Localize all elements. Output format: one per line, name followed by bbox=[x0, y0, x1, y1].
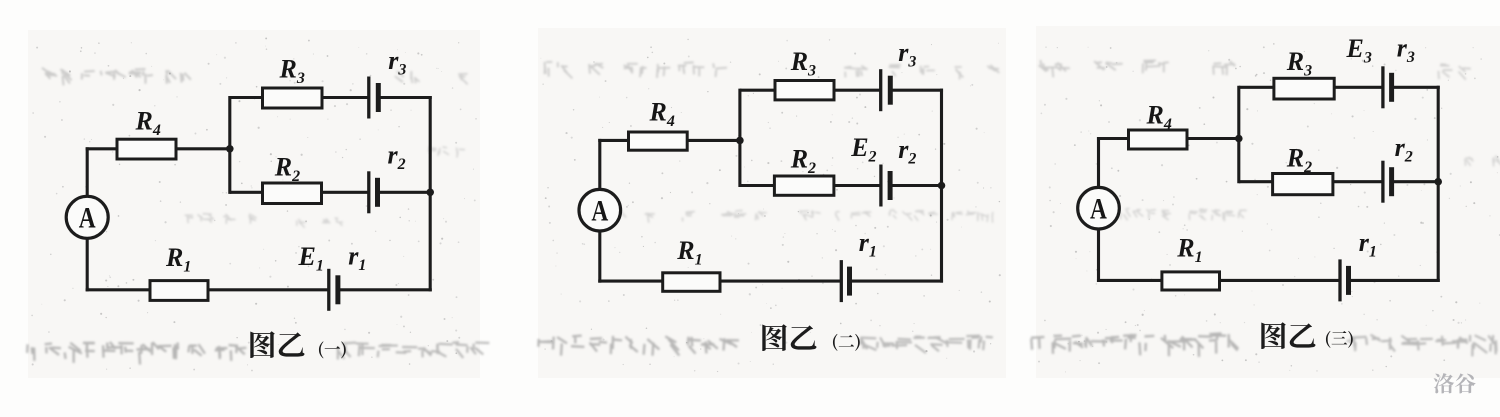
wire ammeter top to R4 left corner bbox=[1097, 137, 1130, 186]
wire R4 to junction node bbox=[175, 147, 231, 150]
wire battery to right rail (bottom) bbox=[1349, 279, 1440, 282]
battery cell r2 middle branch bbox=[369, 171, 378, 213]
junction node right rail (circuit 1) bbox=[426, 189, 434, 197]
resistor R4 (circuit 3) bbox=[1129, 130, 1188, 149]
wire right rail vertical bbox=[940, 89, 943, 283]
wire battery to right rail (middle) bbox=[378, 191, 432, 194]
junction node right rail (circuit 3) bbox=[1434, 178, 1442, 186]
wire R3 to battery bbox=[1333, 86, 1383, 89]
wire R3 to battery bbox=[321, 96, 369, 99]
ammeter A (circuit 3) bbox=[1078, 187, 1120, 229]
wire R1 to battery bbox=[1219, 279, 1341, 282]
resistor R2 (circuit 3) bbox=[1273, 174, 1333, 195]
wire ammeter bottom to bottom rail bbox=[598, 232, 663, 283]
wire battery to right rail (top) bbox=[1392, 86, 1440, 89]
wire R1 to battery bbox=[719, 280, 841, 283]
battery cell r1 bottom branch bbox=[841, 260, 849, 302]
resistor R3 (circuit 3) bbox=[1274, 78, 1334, 99]
wire R3 to battery bbox=[833, 89, 881, 92]
wire R1 to battery bbox=[207, 288, 329, 291]
wire R4 to junction node bbox=[1186, 137, 1240, 140]
resistor R1 (circuit 1) bbox=[150, 281, 208, 301]
wire middle branch left bbox=[230, 191, 264, 194]
battery cell E1 r1 bottom branch bbox=[329, 269, 338, 311]
ammeter A (circuit 2) bbox=[579, 189, 621, 231]
wire battery to right rail (top) bbox=[378, 96, 431, 99]
wire middle branch left bbox=[740, 184, 776, 187]
caption 图乙 (三) bbox=[1261, 322, 1352, 349]
battery cell r3 top branch bbox=[369, 77, 379, 119]
junction node at R4 right (circuit 3) bbox=[1235, 135, 1243, 143]
wire right rail vertical bbox=[1437, 86, 1440, 282]
battery cell r3 top branch bbox=[881, 69, 891, 111]
caption 图乙 (一) bbox=[250, 331, 345, 358]
wire battery to right rail (bottom) bbox=[850, 280, 944, 283]
wire middle branch left bbox=[1239, 180, 1274, 183]
wire top branch left bbox=[230, 96, 264, 99]
svg-text:A: A bbox=[79, 201, 96, 234]
wire vertical branch splitter bbox=[228, 96, 231, 194]
battery cell r1 bottom branch bbox=[1340, 259, 1349, 301]
wire R2 to battery bbox=[321, 191, 369, 194]
battery cell E2 r2 middle branch bbox=[881, 165, 890, 207]
resistor R4 (circuit 2) bbox=[629, 132, 688, 150]
wire R2 to battery bbox=[1332, 180, 1383, 183]
caption 图乙 (二) bbox=[762, 324, 859, 351]
junction node at R4 right (circuit 2) bbox=[736, 137, 744, 145]
junction node at R4 right (circuit 1) bbox=[226, 145, 234, 153]
wire battery to right rail (middle) bbox=[1392, 180, 1440, 183]
battery cell r2 middle branch bbox=[1383, 161, 1392, 203]
wire vertical branch splitter bbox=[738, 89, 741, 187]
wire top branch left bbox=[740, 89, 776, 92]
wire R2 to battery bbox=[833, 184, 881, 187]
wire R4 to junction node bbox=[686, 139, 741, 142]
battery cell E3 r3 top branch bbox=[1383, 66, 1392, 108]
resistor R2 (circuit 1) bbox=[263, 183, 322, 204]
junction node right rail (circuit 2) bbox=[938, 182, 946, 190]
resistor R2 (circuit 2) bbox=[774, 176, 834, 195]
ammeter A (circuit 1) bbox=[66, 196, 108, 238]
svg-text:A: A bbox=[1090, 192, 1107, 225]
wire vertical branch splitter bbox=[1237, 86, 1240, 184]
resistor R4 (circuit 1) bbox=[117, 139, 176, 159]
wire battery to right rail (middle) bbox=[890, 184, 943, 187]
wire battery to right rail (bottom) bbox=[338, 288, 432, 291]
svg-text:A: A bbox=[591, 194, 608, 227]
resistor R1 (circuit 2) bbox=[663, 273, 720, 292]
resistor R3 (circuit 2) bbox=[775, 81, 834, 100]
resistor R1 (circuit 3) bbox=[1162, 272, 1220, 290]
watermark 洛谷 bbox=[1434, 373, 1476, 393]
wire ammeter bottom to bottom rail bbox=[1097, 230, 1163, 282]
wire battery to right rail (top) bbox=[890, 89, 943, 92]
resistor R3 (circuit 1) bbox=[263, 88, 323, 108]
wire ammeter top to R4 left corner bbox=[598, 139, 629, 189]
wire right rail vertical bbox=[429, 96, 432, 291]
wire top branch left bbox=[1239, 86, 1275, 89]
wire ammeter top to R4 left corner bbox=[86, 147, 118, 195]
wire ammeter bottom to bottom rail bbox=[86, 239, 151, 291]
